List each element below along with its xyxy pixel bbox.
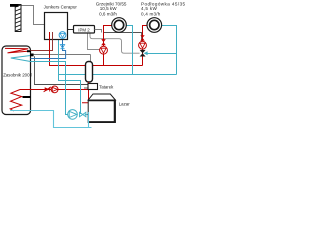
pump Lazar loop	[68, 110, 78, 120]
pump DHW tank	[51, 86, 58, 93]
boiler Junkers Cerapur	[45, 13, 68, 40]
pipe teal podlogowka return	[162, 26, 177, 75]
valve check DHW	[44, 87, 51, 92]
pump boiler (blue)	[59, 32, 66, 39]
coil side port nub	[23, 96, 31, 98]
wire W1 tank sensor to IPM	[34, 54, 91, 56]
wire W3 valve to pump	[104, 33, 142, 42]
pipe teal from boiler down	[59, 40, 81, 114]
pipe red coupler bottom drop	[88, 82, 90, 90]
pipe maroon boiler to tank	[31, 32, 53, 51]
coupler sprzeglo	[86, 62, 93, 83]
valve 3-way mixer	[140, 50, 148, 57]
pump podlogowka	[139, 41, 147, 49]
pipe red Lazar loop with tank	[20, 89, 89, 91]
svg-text:10,5 kW: 10,5 kW	[100, 6, 118, 11]
valve Lazar loop	[80, 112, 92, 117]
boiler Lazar 3D box	[88, 94, 115, 123]
pipe red podlogowka riser	[143, 26, 148, 66]
valve grzejniki lockshield	[101, 39, 106, 45]
valve podlogowka lockshield	[140, 35, 144, 40]
pipe red into Lazar	[82, 90, 89, 103]
boiler pipe stubs inside	[50, 32, 53, 40]
svg-text:Lazar: Lazar	[119, 101, 131, 106]
pipe teal mixer bypass	[147, 53, 176, 55]
tank DHW coil zigzag	[10, 90, 22, 112]
pipe blue boiler return from tank	[31, 38, 66, 58]
tank teal chevron	[11, 56, 31, 62]
svg-text:4,5 kW: 4,5 kW	[141, 6, 157, 11]
svg-text:IPM 2: IPM 2	[78, 27, 90, 32]
svg-text:Junkers Cerapur: Junkers Cerapur	[44, 5, 78, 10]
svg-text:Tatarek: Tatarek	[99, 84, 114, 89]
Lazar inlet nub	[89, 102, 91, 104]
pipe teal common return	[59, 74, 177, 76]
wire flue-to-boiler	[21, 6, 45, 25]
wire W2 tank sensor to Tatarek	[35, 56, 89, 84]
wire IPM2 to mixer actuator	[90, 33, 140, 53]
wire IPM2 to grzejniki pump	[88, 33, 100, 50]
pipe teal tank to lazar pump	[31, 62, 69, 115]
tank bottom cyan cold line	[10, 110, 30, 112]
wire boiler to IPM2	[68, 29, 74, 31]
chimney cap	[10, 4, 19, 7]
box IPM 2	[74, 26, 95, 34]
pipe red grzejniki riser	[104, 26, 112, 66]
wire IPM2 to coupler	[90, 55, 92, 62]
circle grzejniki circuit	[112, 18, 127, 33]
pipe teal grzejniki return	[126, 26, 132, 75]
tank coil top port black tip	[27, 50, 31, 52]
svg-text:Zasobnik 200 l: Zasobnik 200 l	[3, 72, 32, 77]
tank top exchanger red Z	[5, 48, 28, 53]
tank Zasobnik 200 l	[2, 46, 31, 115]
pipe cyan riser to pump line (over box corner)	[88, 112, 90, 128]
svg-text:0,6 m3/h: 0,6 m3/h	[99, 11, 117, 16]
valve blue check below boiler	[60, 45, 64, 49]
box Tatarek controller	[88, 84, 98, 90]
pipe red CH supply boiler to manifold	[50, 32, 143, 66]
sensor pocket on tank	[30, 54, 34, 57]
pump grzejniki	[100, 46, 108, 54]
circle podlogowka circuit	[147, 18, 162, 33]
wire Tatarek stub 2	[84, 87, 88, 89]
chimney	[11, 3, 25, 37]
pipe cyan tank bottom loop	[31, 111, 92, 128]
svg-text:0,4 m3/h: 0,4 m3/h	[141, 11, 161, 16]
wire IPM2 to circuits	[95, 30, 102, 33]
